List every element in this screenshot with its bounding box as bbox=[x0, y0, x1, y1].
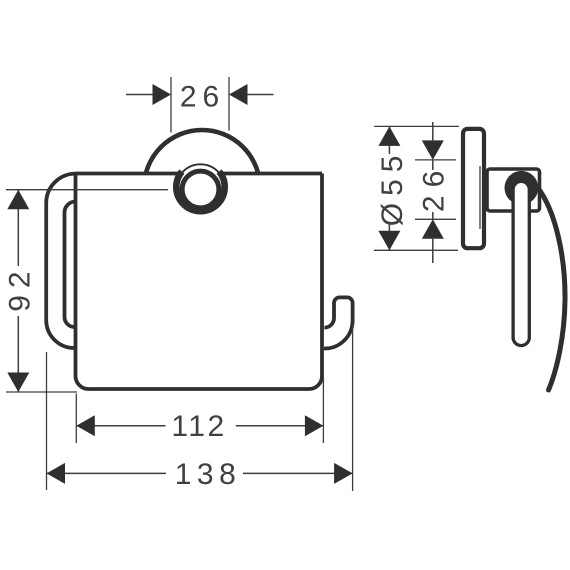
hub hole thin arc (front) bbox=[176, 164, 225, 213]
extension line bottom (92) bbox=[6, 391, 77, 393]
arrow tail right (26 front) bbox=[248, 94, 274, 96]
wall rose dome (front) bbox=[144, 130, 260, 246]
svg-text:112: 112 bbox=[171, 410, 226, 443]
left mounting bracket inner curve bbox=[65, 202, 76, 328]
extension line top (Ø55) bbox=[374, 125, 459, 127]
svg-text:26: 26 bbox=[418, 163, 451, 212]
wall rose (side) bbox=[463, 129, 484, 248]
cover plate top edge left segment bbox=[76, 172, 179, 176]
extension line top (26 side) bbox=[415, 159, 456, 161]
dimension line top part (Ø55) bbox=[388, 126, 390, 154]
cover plate top edge right segment bbox=[222, 172, 322, 176]
arrow tail bottom (26 side) bbox=[432, 239, 434, 263]
arrow left (138) bbox=[47, 463, 66, 484]
extension line top (92) bbox=[6, 189, 168, 191]
dimension line (92) bbox=[17, 190, 19, 392]
arrow bottom (Ø55) bbox=[378, 231, 400, 251]
dimension line right part (138) bbox=[243, 472, 353, 474]
roll pin (front) bbox=[182, 171, 219, 208]
dimension line left part (112) bbox=[76, 425, 165, 427]
extension line bottom (26 side) bbox=[415, 218, 456, 220]
cover profile curve (side) bbox=[538, 188, 565, 390]
arrow left (26 front) bbox=[153, 84, 172, 105]
arrow tail top (26 side) bbox=[432, 122, 434, 140]
svg-text:138: 138 bbox=[175, 458, 242, 491]
arrow right (138) bbox=[334, 463, 353, 484]
spare-roll hook (front right) bbox=[324, 297, 353, 348]
extension line left (112) bbox=[75, 394, 77, 443]
svg-text:Ø55: Ø55 bbox=[376, 149, 409, 227]
arrow right (112) bbox=[305, 415, 324, 436]
dimension line bottom part (Ø55) bbox=[388, 223, 390, 250]
svg-text:26: 26 bbox=[180, 80, 225, 113]
pivot block (side) bbox=[487, 169, 540, 211]
cover plate body outline bbox=[76, 174, 323, 390]
label 92 backing bbox=[2, 266, 32, 316]
extension line right (138) bbox=[352, 323, 354, 491]
arrow right (26 front) bbox=[229, 84, 248, 105]
arrow left (112) bbox=[76, 415, 95, 436]
left mounting bracket outer curve bbox=[46, 174, 75, 348]
arrow top (92) bbox=[7, 190, 29, 210]
arrow bottom (26 side) bbox=[422, 219, 444, 239]
arrow top (Ø55) bbox=[378, 126, 400, 145]
dimension line right part (112) bbox=[236, 425, 324, 427]
holder arm (side) bbox=[513, 181, 529, 345]
dimension line left part (138) bbox=[47, 472, 167, 474]
rose face line (side) bbox=[479, 166, 481, 229]
arrow top (26 side) bbox=[422, 140, 444, 160]
arrow bottom (92) bbox=[7, 373, 29, 393]
dimension line (26 side) bbox=[432, 160, 434, 170]
extension line left (26 front) bbox=[170, 77, 172, 133]
pivot hub disc (side) bbox=[505, 171, 539, 205]
extension line bottom (Ø55) bbox=[374, 249, 458, 251]
svg-text:92: 92 bbox=[3, 264, 36, 311]
arrow tail left (26 front) bbox=[126, 94, 153, 96]
extension line right (112) bbox=[322, 376, 324, 443]
extension line left (138) bbox=[46, 352, 48, 490]
hub hole thick U (front) bbox=[176, 172, 224, 212]
extension line right (26 front) bbox=[228, 77, 230, 131]
